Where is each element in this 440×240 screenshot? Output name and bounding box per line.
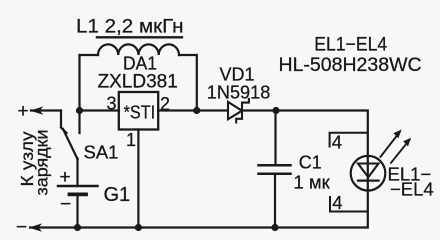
svg-text:G1: G1 <box>104 184 131 206</box>
svg-text:4: 4 <box>332 192 342 213</box>
svg-text:1N5918: 1N5918 <box>207 82 270 103</box>
svg-text:HL-508H238WC: HL-508H238WC <box>279 54 422 76</box>
light arrow 1 head <box>394 130 402 139</box>
light arrow 2 head <box>403 138 411 147</box>
node junction C1 / bus <box>271 224 278 231</box>
wire C1 bottom lead <box>274 174 276 228</box>
svg-text:−: − <box>16 217 27 238</box>
svg-text:+: + <box>18 101 29 122</box>
label underline L1 <box>97 36 182 38</box>
LED EL1 circle <box>351 156 386 191</box>
svg-text:EL1−EL4: EL1−EL4 <box>314 35 387 56</box>
node junction L1-left / SA1 <box>76 107 83 114</box>
svg-text:2: 2 <box>160 94 170 114</box>
svg-text:4: 4 <box>332 132 342 153</box>
wire chip pin1 down <box>137 130 139 228</box>
LED pin 4 bottom bracket <box>330 197 368 212</box>
svg-text:SA1: SA1 <box>84 142 119 163</box>
wire battery to bus <box>76 195 78 228</box>
node junction L1-right / pin2 <box>193 107 200 114</box>
LED EL1 cathode bar <box>358 179 379 181</box>
node junction diode out / C1 <box>272 107 279 114</box>
wire diode cathode to LED corner <box>242 111 368 226</box>
node junction battery minus <box>74 224 81 231</box>
svg-text:L1 2,2 мкГн: L1 2,2 мкГн <box>76 16 184 38</box>
wire inductor left lead + switch fixed contact <box>78 55 80 133</box>
wire top rail pin2 to diode <box>158 109 227 111</box>
LED pin 4 top bracket <box>330 133 368 147</box>
svg-text:−EL4: −EL4 <box>390 179 434 200</box>
svg-text:*STI: *STI <box>124 102 156 123</box>
battery G1 short plate <box>70 192 87 196</box>
svg-text:ZXLD381: ZXLD381 <box>98 72 178 93</box>
svg-text:1: 1 <box>126 130 136 150</box>
wire top rail pin3 segment <box>80 109 119 111</box>
LED EL1 triangle <box>358 164 379 178</box>
battery G1 long plate <box>58 185 98 188</box>
arrowhead + (to charger node) <box>30 106 43 114</box>
wire top rail left (to + arrow) <box>31 109 61 111</box>
light arrow 2 <box>391 140 410 163</box>
diode VD1 triangle <box>228 102 242 119</box>
light arrow 1 <box>381 132 400 157</box>
wire C1 top lead <box>274 111 276 166</box>
node junction pin1 / bus <box>135 224 142 231</box>
switch SA1 blade <box>63 129 78 159</box>
switch SA1 tick <box>61 128 67 134</box>
svg-text:C1: C1 <box>299 152 322 173</box>
svg-text:3: 3 <box>107 94 117 114</box>
svg-text:+: + <box>60 167 71 188</box>
svg-text:зарядки: зарядки <box>32 130 52 196</box>
svg-text:−: − <box>60 194 71 215</box>
wire SA1 upper-left terminal <box>60 111 62 128</box>
inductor L1 <box>98 44 179 55</box>
chip DA1 box <box>119 92 158 130</box>
wire inductor right lead <box>179 55 197 111</box>
svg-text:DA1: DA1 <box>123 53 157 74</box>
capacitor C1 plates <box>259 164 291 167</box>
wire switch to battery <box>76 159 78 187</box>
arrowhead - (to charger node) <box>29 223 42 231</box>
svg-text:1 мк: 1 мк <box>294 172 331 193</box>
wire bottom bus <box>30 226 368 228</box>
wire inductor left top <box>80 54 99 56</box>
diode VD1 schottky cathode bar <box>236 99 249 123</box>
